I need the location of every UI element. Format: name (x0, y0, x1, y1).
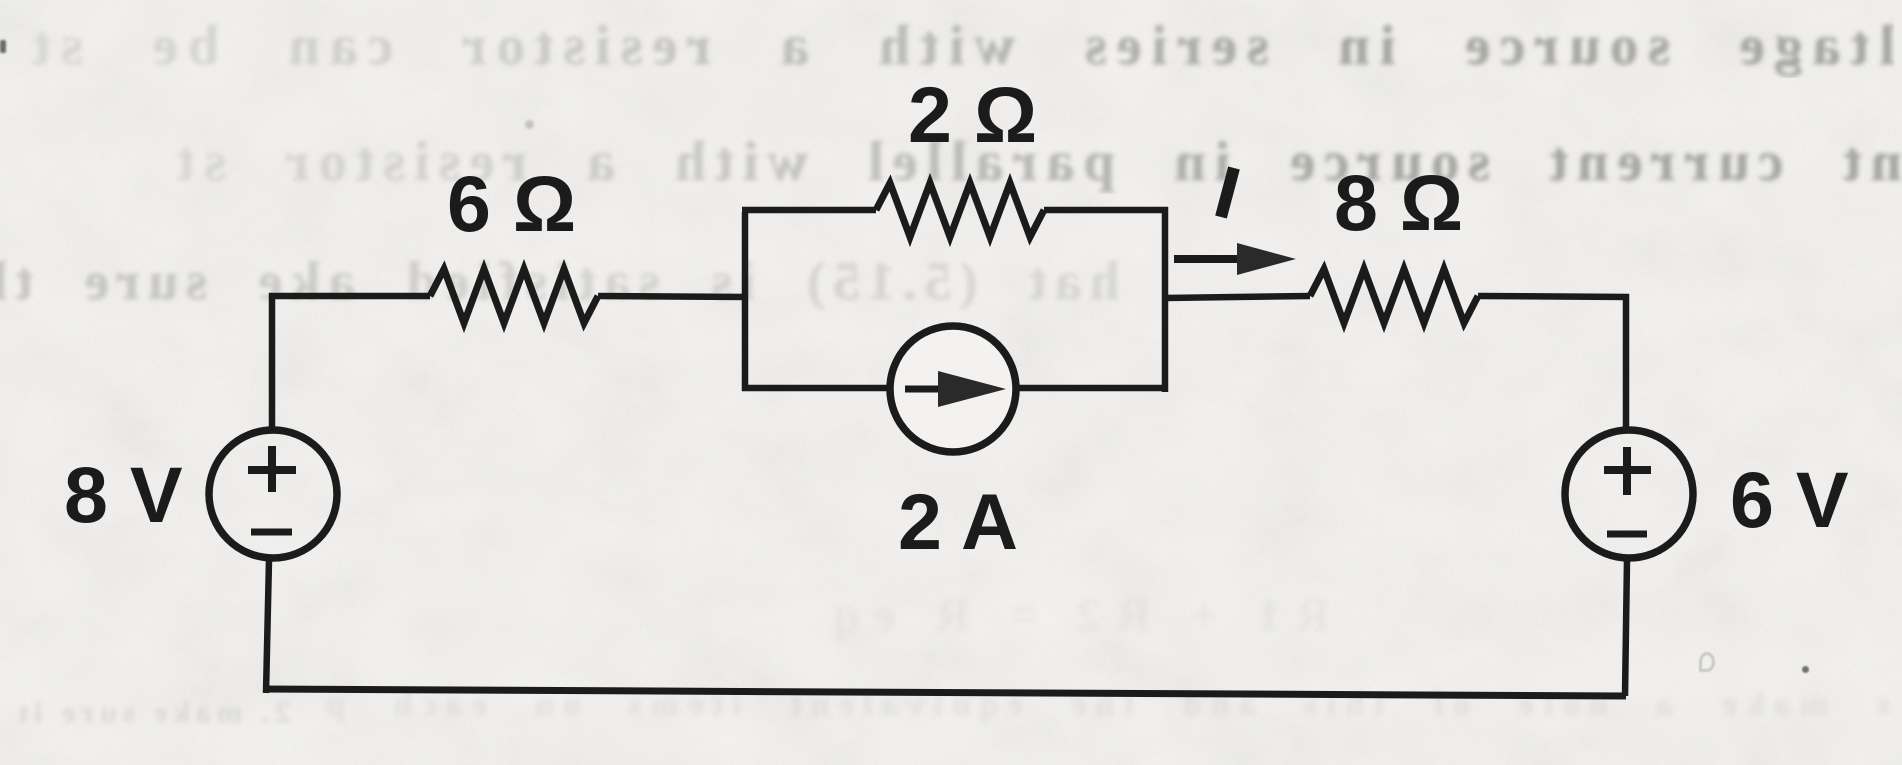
svg-text:8 V: 8 V (64, 450, 183, 539)
svg-text:2 Ω: 2 Ω (908, 70, 1037, 159)
svg-text:6 V: 6 V (1730, 455, 1849, 544)
svg-text:8 Ω: 8 Ω (1334, 158, 1463, 247)
svg-text:6 Ω: 6 Ω (447, 159, 576, 248)
svg-text:2 A: 2 A (898, 477, 1018, 566)
